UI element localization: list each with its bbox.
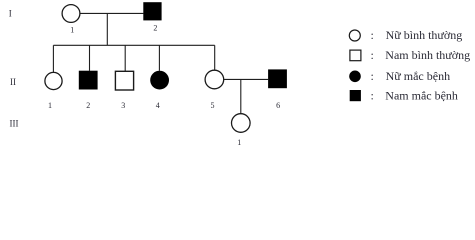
- individual II-6: affected male filled square: [268, 69, 287, 88]
- wire: drop to II-2: [89, 45, 91, 71]
- svg-text::: :: [371, 69, 374, 83]
- legend symbol: open square (normal male): [350, 50, 361, 61]
- svg-text:Nữ bình thường: Nữ bình thường: [386, 28, 463, 42]
- svg-text:3: 3: [121, 101, 125, 110]
- wire: marriage line II-5 to II-6: [224, 78, 268, 80]
- wire: drop to II-5: [214, 45, 216, 70]
- svg-text:Nữ mắc bệnh: Nữ mắc bệnh: [386, 69, 450, 83]
- wire: sibship line generation II: [53, 44, 214, 46]
- individual II-1: normal female circle: [45, 72, 62, 89]
- svg-text:I: I: [9, 8, 12, 18]
- svg-text:5: 5: [211, 101, 215, 110]
- wire: drop to II-4: [158, 45, 160, 71]
- individual II-2: affected male filled square: [79, 71, 98, 90]
- individual III-1: normal female circle: [232, 114, 251, 133]
- individual II-3: normal male open square: [115, 71, 133, 90]
- svg-text:2: 2: [153, 24, 157, 33]
- legend symbol: filled circle (affected female): [349, 71, 361, 83]
- wire: drop to II-3: [124, 45, 126, 71]
- svg-text:II: II: [10, 77, 16, 87]
- individual I-1: normal female circle: [62, 5, 80, 23]
- svg-text::: :: [371, 28, 374, 42]
- svg-text:1: 1: [237, 138, 241, 147]
- svg-text:2: 2: [86, 101, 90, 110]
- wire: vertical drop from I couple to sibship line: [106, 13, 108, 45]
- svg-text:4: 4: [156, 101, 160, 110]
- svg-text::: :: [371, 88, 374, 102]
- wire: drop from II-5/II-6 marriage to III-1: [240, 79, 242, 114]
- legend symbol: filled square (affected male): [350, 90, 361, 101]
- svg-text::: :: [371, 48, 374, 62]
- individual II-5: normal female circle: [205, 70, 224, 89]
- wire: marriage line I-1 to I-2: [80, 12, 144, 14]
- svg-text:Nam bình thường: Nam bình thường: [385, 48, 470, 62]
- svg-text:6: 6: [276, 101, 280, 110]
- legend symbol: open circle (normal female): [349, 30, 360, 41]
- svg-text:Nam mắc bệnh: Nam mắc bệnh: [385, 88, 458, 102]
- individual II-4: affected female filled circle: [150, 71, 169, 90]
- svg-text:III: III: [10, 118, 19, 128]
- wire: drop to II-1: [52, 45, 54, 72]
- svg-text:1: 1: [48, 101, 52, 110]
- individual I-2: affected male filled square: [143, 2, 161, 20]
- svg-text:1: 1: [70, 26, 74, 35]
